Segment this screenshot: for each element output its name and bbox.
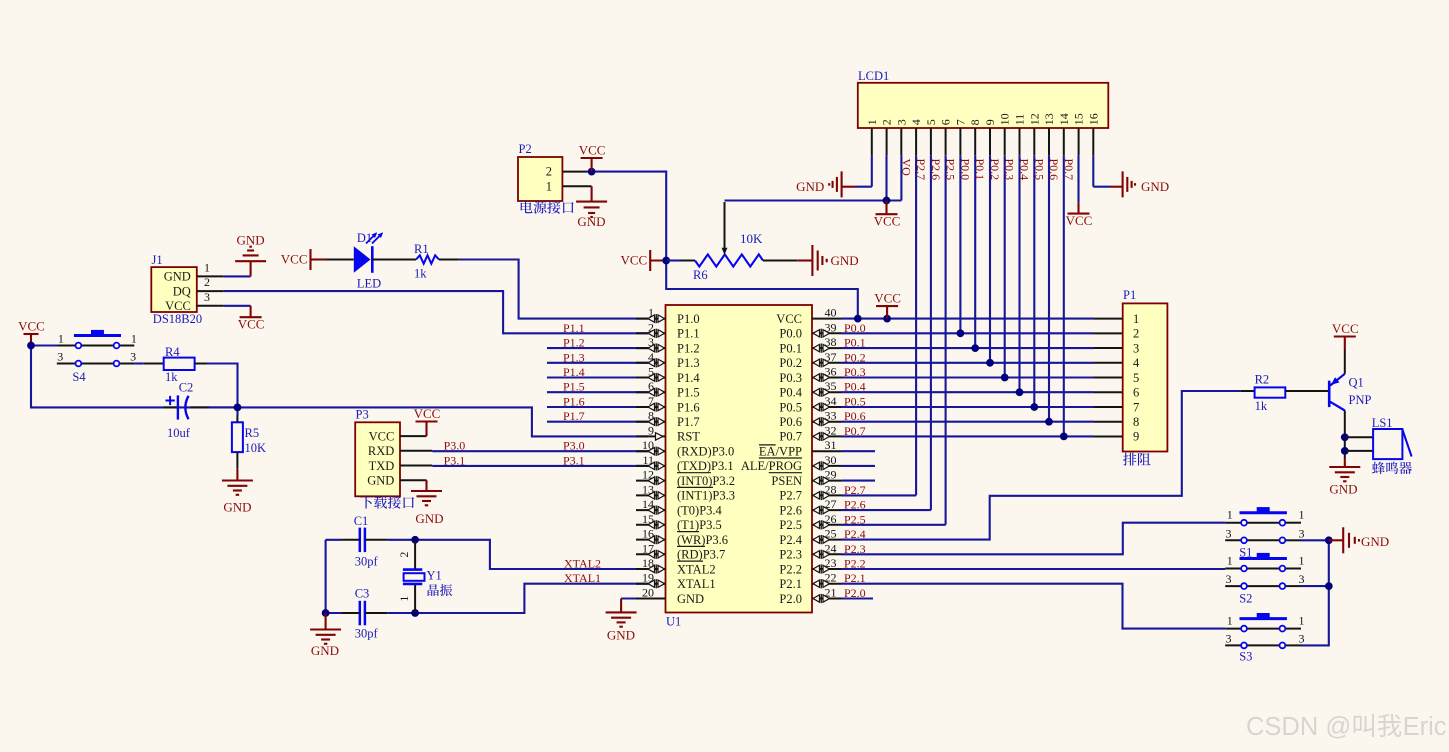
svg-text:3: 3 — [894, 119, 908, 125]
svg-text:3: 3 — [1299, 631, 1305, 645]
svg-text:R5: R5 — [245, 426, 260, 440]
svg-text:GND: GND — [1329, 481, 1357, 496]
svg-text:3: 3 — [204, 290, 210, 304]
svg-text:P0.1: P0.1 — [779, 341, 802, 355]
svg-text:10K: 10K — [740, 231, 763, 246]
svg-text:P0.6: P0.6 — [1047, 159, 1061, 181]
svg-text:GND: GND — [831, 253, 859, 268]
svg-text:P1.1: P1.1 — [563, 321, 585, 335]
svg-text:P2: P2 — [519, 142, 532, 156]
svg-text:P2.4: P2.4 — [779, 533, 802, 547]
svg-text:P1.1: P1.1 — [677, 327, 700, 341]
svg-text:12: 12 — [1027, 113, 1041, 125]
svg-text:GND: GND — [415, 511, 443, 526]
svg-text:CSDN @: CSDN @ — [1246, 713, 1351, 741]
svg-text:VCC: VCC — [165, 299, 191, 313]
svg-text:Y1: Y1 — [427, 569, 442, 583]
svg-text:R6: R6 — [693, 268, 708, 282]
svg-text:VCC: VCC — [874, 214, 901, 229]
svg-text:VCC: VCC — [414, 406, 441, 421]
svg-text:GND: GND — [677, 592, 704, 606]
svg-text:GND: GND — [1141, 179, 1169, 194]
svg-text:2: 2 — [880, 119, 894, 125]
svg-text:GND: GND — [237, 232, 265, 247]
svg-text:1: 1 — [1133, 312, 1139, 326]
svg-text:5: 5 — [924, 119, 938, 125]
svg-text:P0.3: P0.3 — [779, 371, 802, 385]
svg-text:EA/VPP: EA/VPP — [759, 445, 802, 459]
svg-text:13: 13 — [1042, 113, 1056, 125]
svg-text:Q1: Q1 — [1349, 376, 1364, 390]
svg-text:VCC: VCC — [1332, 321, 1359, 336]
svg-text:1: 1 — [204, 260, 210, 274]
svg-text:P1.7: P1.7 — [563, 409, 585, 423]
svg-text:GND: GND — [796, 179, 824, 194]
svg-text:DS18B20: DS18B20 — [153, 312, 202, 326]
svg-text:GND: GND — [577, 214, 605, 229]
svg-text:P0.7: P0.7 — [779, 430, 802, 444]
svg-text:(T1)P3.5: (T1)P3.5 — [677, 518, 722, 532]
svg-text:P2.4: P2.4 — [844, 527, 866, 541]
svg-text:40: 40 — [825, 306, 837, 320]
svg-text:XTAL2: XTAL2 — [677, 562, 716, 576]
svg-text:DQ: DQ — [173, 284, 191, 298]
svg-text:10: 10 — [998, 113, 1012, 125]
svg-text:P1.7: P1.7 — [677, 415, 700, 429]
svg-text:ALE/PROG: ALE/PROG — [741, 459, 802, 473]
svg-text:P0.7: P0.7 — [1062, 159, 1076, 181]
svg-text:P2.5: P2.5 — [844, 512, 866, 526]
svg-text:P3.1: P3.1 — [563, 453, 585, 467]
svg-text:VCC: VCC — [369, 429, 395, 443]
svg-text:P2.2: P2.2 — [844, 557, 866, 571]
svg-text:P2.6: P2.6 — [929, 159, 943, 181]
svg-text:1: 1 — [865, 119, 879, 125]
svg-text:P3.0: P3.0 — [563, 439, 585, 453]
svg-text:VCC: VCC — [238, 317, 265, 332]
svg-text:5: 5 — [1133, 371, 1139, 385]
svg-text:3: 3 — [1299, 572, 1305, 586]
svg-text:(RXD)P3.0: (RXD)P3.0 — [677, 445, 734, 459]
svg-text:P0.2: P0.2 — [844, 350, 866, 364]
svg-text:P0.3: P0.3 — [844, 365, 866, 379]
svg-text:2: 2 — [1133, 327, 1139, 341]
svg-text:P0.6: P0.6 — [844, 409, 866, 423]
svg-text:1: 1 — [1227, 614, 1233, 628]
svg-text:R2: R2 — [1255, 373, 1270, 387]
svg-text:P0.5: P0.5 — [1032, 159, 1046, 181]
svg-text:P0.4: P0.4 — [844, 380, 866, 394]
svg-text:1: 1 — [1299, 614, 1305, 628]
svg-text:P0.2: P0.2 — [779, 356, 802, 370]
svg-text:1: 1 — [1227, 508, 1233, 522]
svg-text:2: 2 — [546, 165, 552, 179]
svg-text:(RD)P3.7: (RD)P3.7 — [677, 548, 725, 562]
svg-text:P2.3: P2.3 — [844, 542, 866, 556]
svg-text:P2.5: P2.5 — [779, 518, 802, 532]
svg-text:16: 16 — [1086, 113, 1100, 125]
svg-text:P0.0: P0.0 — [779, 327, 802, 341]
svg-text:3: 3 — [1226, 572, 1232, 586]
svg-text:LED: LED — [357, 277, 381, 291]
svg-text:XTAL1: XTAL1 — [677, 577, 716, 591]
svg-text:GND: GND — [223, 500, 251, 515]
svg-text:VCC: VCC — [776, 312, 802, 326]
svg-text:1k: 1k — [1255, 399, 1268, 413]
svg-text:P2.2: P2.2 — [779, 562, 802, 576]
svg-text:7: 7 — [1133, 400, 1139, 414]
svg-text:P2.7: P2.7 — [779, 489, 802, 503]
svg-text:3: 3 — [1133, 341, 1139, 355]
svg-text:J1: J1 — [152, 253, 163, 267]
svg-text:VO: VO — [899, 159, 913, 177]
svg-text:P1.0: P1.0 — [677, 312, 700, 326]
svg-text:P1.6: P1.6 — [677, 400, 700, 414]
svg-text:3: 3 — [1226, 631, 1232, 645]
svg-text:(T0)P3.4: (T0)P3.4 — [677, 503, 723, 517]
svg-text:3: 3 — [1299, 526, 1305, 540]
svg-text:C3: C3 — [355, 587, 370, 601]
svg-text:P2.7: P2.7 — [914, 159, 928, 181]
svg-text:P1.6: P1.6 — [563, 395, 585, 409]
svg-text:VCC: VCC — [579, 143, 606, 158]
svg-text:GND: GND — [367, 474, 394, 488]
svg-text:9: 9 — [1133, 430, 1139, 444]
svg-text:C1: C1 — [354, 514, 369, 528]
svg-text:P3.1: P3.1 — [444, 453, 466, 467]
svg-text:9: 9 — [983, 119, 997, 125]
svg-text:P0.5: P0.5 — [779, 400, 802, 414]
svg-text:P2.0: P2.0 — [779, 592, 802, 606]
svg-text:8: 8 — [968, 119, 982, 125]
svg-text:P0.1: P0.1 — [844, 336, 866, 350]
svg-text:P0.4: P0.4 — [779, 386, 802, 400]
svg-text:(INT1)P3.3: (INT1)P3.3 — [677, 489, 735, 503]
svg-text:(TXD)P3.1: (TXD)P3.1 — [677, 459, 734, 473]
svg-text:S3: S3 — [1239, 650, 1252, 664]
svg-text:1: 1 — [1227, 554, 1233, 568]
svg-text:1k: 1k — [165, 370, 178, 384]
svg-text:20: 20 — [642, 586, 654, 600]
svg-text:TXD: TXD — [369, 459, 395, 473]
svg-text:VCC: VCC — [18, 319, 45, 334]
svg-text:9: 9 — [648, 423, 654, 437]
svg-text:P0.6: P0.6 — [779, 415, 802, 429]
svg-text:P0.4: P0.4 — [1018, 159, 1032, 181]
svg-text:1: 1 — [1299, 508, 1305, 522]
svg-text:RXD: RXD — [368, 444, 394, 458]
svg-text:7: 7 — [953, 119, 967, 125]
svg-text:PNP: PNP — [1349, 393, 1372, 407]
svg-text:P3: P3 — [356, 408, 369, 422]
svg-text:6: 6 — [939, 119, 953, 125]
svg-text:RST: RST — [677, 430, 700, 444]
svg-text:PSEN: PSEN — [771, 474, 802, 488]
svg-text:1: 1 — [1299, 554, 1305, 568]
svg-text:P2.7: P2.7 — [844, 483, 866, 497]
svg-text:P0.3: P0.3 — [1003, 159, 1017, 181]
svg-text:P1.5: P1.5 — [563, 380, 585, 394]
svg-text:GND: GND — [311, 643, 339, 658]
svg-text:15: 15 — [1072, 113, 1086, 125]
svg-text:P1.4: P1.4 — [563, 365, 585, 379]
svg-text:LS1: LS1 — [1372, 416, 1393, 430]
svg-text:P2.1: P2.1 — [844, 571, 866, 585]
svg-text:Eric: Eric — [1403, 713, 1447, 741]
svg-text:31: 31 — [825, 438, 837, 452]
svg-text:VCC: VCC — [281, 252, 308, 267]
svg-text:P1.2: P1.2 — [563, 336, 585, 350]
svg-text:S4: S4 — [72, 370, 86, 384]
svg-text:3: 3 — [1226, 526, 1232, 540]
svg-text:S2: S2 — [1239, 592, 1252, 606]
svg-text:1: 1 — [131, 332, 137, 346]
svg-text:6: 6 — [1133, 386, 1139, 400]
svg-text:P0.2: P0.2 — [988, 159, 1002, 181]
svg-text:P3.0: P3.0 — [444, 439, 466, 453]
svg-text:D1: D1 — [357, 231, 372, 245]
svg-text:P1.3: P1.3 — [677, 356, 700, 370]
svg-text:P1.5: P1.5 — [677, 386, 700, 400]
svg-text:R4: R4 — [165, 345, 180, 359]
svg-text:1: 1 — [399, 596, 411, 602]
svg-text:U1: U1 — [666, 615, 681, 629]
svg-text:P2.1: P2.1 — [779, 577, 802, 591]
svg-text:3: 3 — [57, 350, 63, 364]
svg-text:4: 4 — [909, 119, 923, 125]
svg-text:P1.2: P1.2 — [677, 341, 700, 355]
svg-text:P0.5: P0.5 — [844, 395, 866, 409]
svg-text:1: 1 — [546, 179, 552, 193]
svg-text:P2.6: P2.6 — [844, 498, 866, 512]
svg-text:P1.3: P1.3 — [563, 350, 585, 364]
svg-text:GND: GND — [164, 270, 191, 284]
svg-text:30pf: 30pf — [355, 554, 379, 568]
svg-text:2: 2 — [204, 275, 210, 289]
svg-text:VCC: VCC — [1066, 213, 1093, 228]
svg-text:C2: C2 — [179, 380, 194, 394]
svg-text:2: 2 — [399, 552, 411, 558]
svg-text:P1: P1 — [1123, 288, 1136, 302]
svg-text:VCC: VCC — [874, 291, 901, 306]
svg-text:R1: R1 — [414, 242, 429, 256]
svg-text:1k: 1k — [414, 267, 427, 281]
svg-text:10uf: 10uf — [167, 426, 191, 440]
svg-text:P1.4: P1.4 — [677, 371, 700, 385]
svg-text:P2.6: P2.6 — [779, 503, 802, 517]
svg-text:VCC: VCC — [620, 253, 647, 268]
svg-text:14: 14 — [1057, 113, 1071, 125]
svg-text:3: 3 — [130, 350, 136, 364]
svg-text:P2.5: P2.5 — [944, 159, 958, 181]
svg-text:P0.1: P0.1 — [973, 159, 987, 181]
svg-text:XTAL2: XTAL2 — [564, 557, 601, 571]
svg-text:GND: GND — [607, 628, 635, 643]
svg-text:P0.7: P0.7 — [844, 424, 866, 438]
svg-text:XTAL1: XTAL1 — [564, 571, 601, 585]
svg-text:11: 11 — [1013, 114, 1027, 126]
svg-text:P0.0: P0.0 — [844, 321, 866, 335]
svg-text:P2.3: P2.3 — [779, 548, 802, 562]
svg-text:1: 1 — [58, 332, 64, 346]
svg-text:P0.0: P0.0 — [958, 159, 972, 181]
svg-text:GND: GND — [1361, 534, 1389, 549]
svg-text:P2.0: P2.0 — [844, 586, 866, 600]
svg-text:4: 4 — [1133, 356, 1140, 370]
svg-text:30pf: 30pf — [355, 627, 379, 641]
svg-text:10K: 10K — [245, 441, 267, 455]
svg-text:LCD1: LCD1 — [858, 69, 889, 83]
svg-text:8: 8 — [1133, 415, 1139, 429]
svg-text:(INT0)P3.2: (INT0)P3.2 — [677, 474, 735, 488]
svg-text:(WR)P3.6: (WR)P3.6 — [677, 533, 728, 547]
